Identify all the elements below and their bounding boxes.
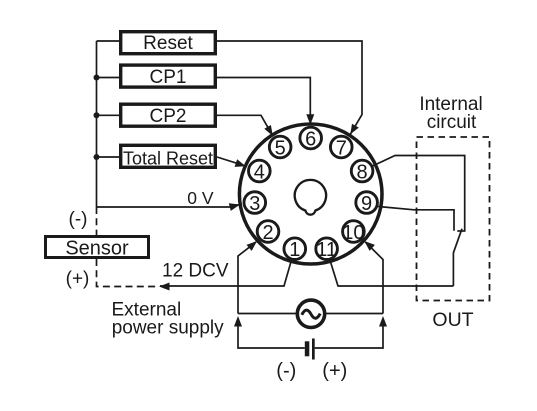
arrowhead battery right up: [379, 316, 387, 327]
dashed wire: sensor plus to 12 DCV line: [97, 259, 159, 287]
relay contact blade and fixed contact foot: [457, 230, 465, 232]
wire: bus to Total Reset box: [97, 156, 122, 158]
input box Reset: [121, 32, 216, 54]
pin 6: [300, 127, 322, 150]
socket outline: [239, 124, 382, 264]
wire: pin 11 to relay common: [330, 259, 454, 286]
wire: CP1 box to pin 6: [217, 78, 310, 124]
wire: pin 1 to 12 DCV: [160, 259, 292, 286]
input box Total Reset: [121, 145, 216, 168]
wire: CP2 box to pin 5: [217, 115, 273, 136]
input box CP1: [121, 65, 216, 88]
dashed wire: 0 V to sensor minus: [96, 207, 98, 235]
wire: Total Reset box to pin 4: [217, 157, 237, 163]
arrowhead at pin 3: [229, 203, 240, 211]
svg-text:CP2: CP2: [150, 106, 187, 127]
arrowhead battery left up: [234, 316, 242, 327]
battery B1: [305, 339, 315, 360]
svg-text:9: 9: [361, 193, 372, 215]
svg-text:10: 10: [342, 222, 364, 244]
svg-text:5: 5: [275, 137, 286, 159]
svg-text:CP1: CP1: [150, 67, 187, 88]
junction dot at Total Reset: [94, 154, 100, 160]
svg-text:3: 3: [249, 193, 260, 215]
sensor box: [46, 237, 149, 260]
arrowhead 12 DCV external supply: [159, 283, 170, 291]
svg-text:(-): (-): [276, 360, 296, 382]
wire: left input bus: [96, 41, 98, 207]
svg-text:Sensor: Sensor: [65, 238, 129, 260]
svg-text:power supply: power supply: [112, 318, 224, 339]
pin 4: [249, 160, 271, 183]
input box CP2: [121, 104, 216, 127]
pin 1: [284, 238, 306, 261]
wire: bus to CP1 box: [97, 77, 122, 79]
svg-text:circuit: circuit: [427, 112, 477, 133]
wire: Reset box to pin 7: [217, 41, 362, 134]
keyway center hole: [295, 180, 326, 215]
arrowhead at pin 6: [306, 114, 314, 125]
wire: pin 8 to internal circuit: [372, 156, 465, 232]
wire: pin 9 to internal circuit: [377, 206, 455, 230]
arrowhead at pin 4: [235, 159, 246, 167]
svg-text:1: 1: [289, 239, 300, 261]
wire: bus to CP2 box: [97, 114, 122, 116]
pin 3: [244, 192, 266, 215]
svg-text:Reset: Reset: [143, 33, 193, 54]
svg-text:(-): (-): [69, 209, 88, 230]
pin 10: [342, 221, 364, 244]
svg-text:Total Reset: Total Reset: [123, 148, 213, 168]
wire: AC line to pin 10: [365, 242, 383, 314]
label external power supply: [112, 300, 225, 339]
pin 9: [356, 192, 378, 215]
battery loop right wire with up arrow: [315, 322, 383, 348]
svg-text:11: 11: [316, 239, 337, 261]
dashed enclosure: internal circuit / OUT: [417, 137, 490, 301]
svg-text:8: 8: [357, 161, 368, 183]
AC source: [297, 300, 324, 327]
wire: bus to Reset box: [97, 40, 122, 42]
pin 2: [257, 221, 279, 244]
pin 8: [351, 160, 373, 183]
pin 5: [269, 136, 291, 159]
svg-text:OUT: OUT: [432, 309, 473, 331]
wire: AC line to pin 2: [238, 242, 256, 314]
svg-text:12 DCV: 12 DCV: [162, 261, 229, 282]
svg-text:4: 4: [254, 161, 265, 183]
junction dot at CP2: [94, 112, 100, 118]
svg-text:(+): (+): [322, 360, 347, 382]
svg-text:7: 7: [336, 137, 347, 159]
label internal circuit: [419, 94, 482, 133]
arrowhead at pin 7: [350, 124, 359, 135]
wire: AC supply row: [238, 313, 297, 315]
junction dot at CP1: [94, 75, 100, 81]
battery loop left wire with up arrow: [238, 322, 305, 348]
arrowhead at pin 2: [247, 241, 258, 251]
svg-text:6: 6: [305, 128, 316, 150]
pin 7: [330, 136, 352, 159]
pin 11: [316, 238, 338, 261]
svg-text:(+): (+): [66, 269, 90, 290]
svg-text:2: 2: [262, 222, 273, 244]
wire: 0 V line to pin 3: [97, 205, 241, 208]
arrowhead at pin 10: [364, 241, 375, 251]
svg-text:0 V: 0 V: [187, 188, 214, 208]
arrowhead at pin 5: [264, 125, 273, 136]
